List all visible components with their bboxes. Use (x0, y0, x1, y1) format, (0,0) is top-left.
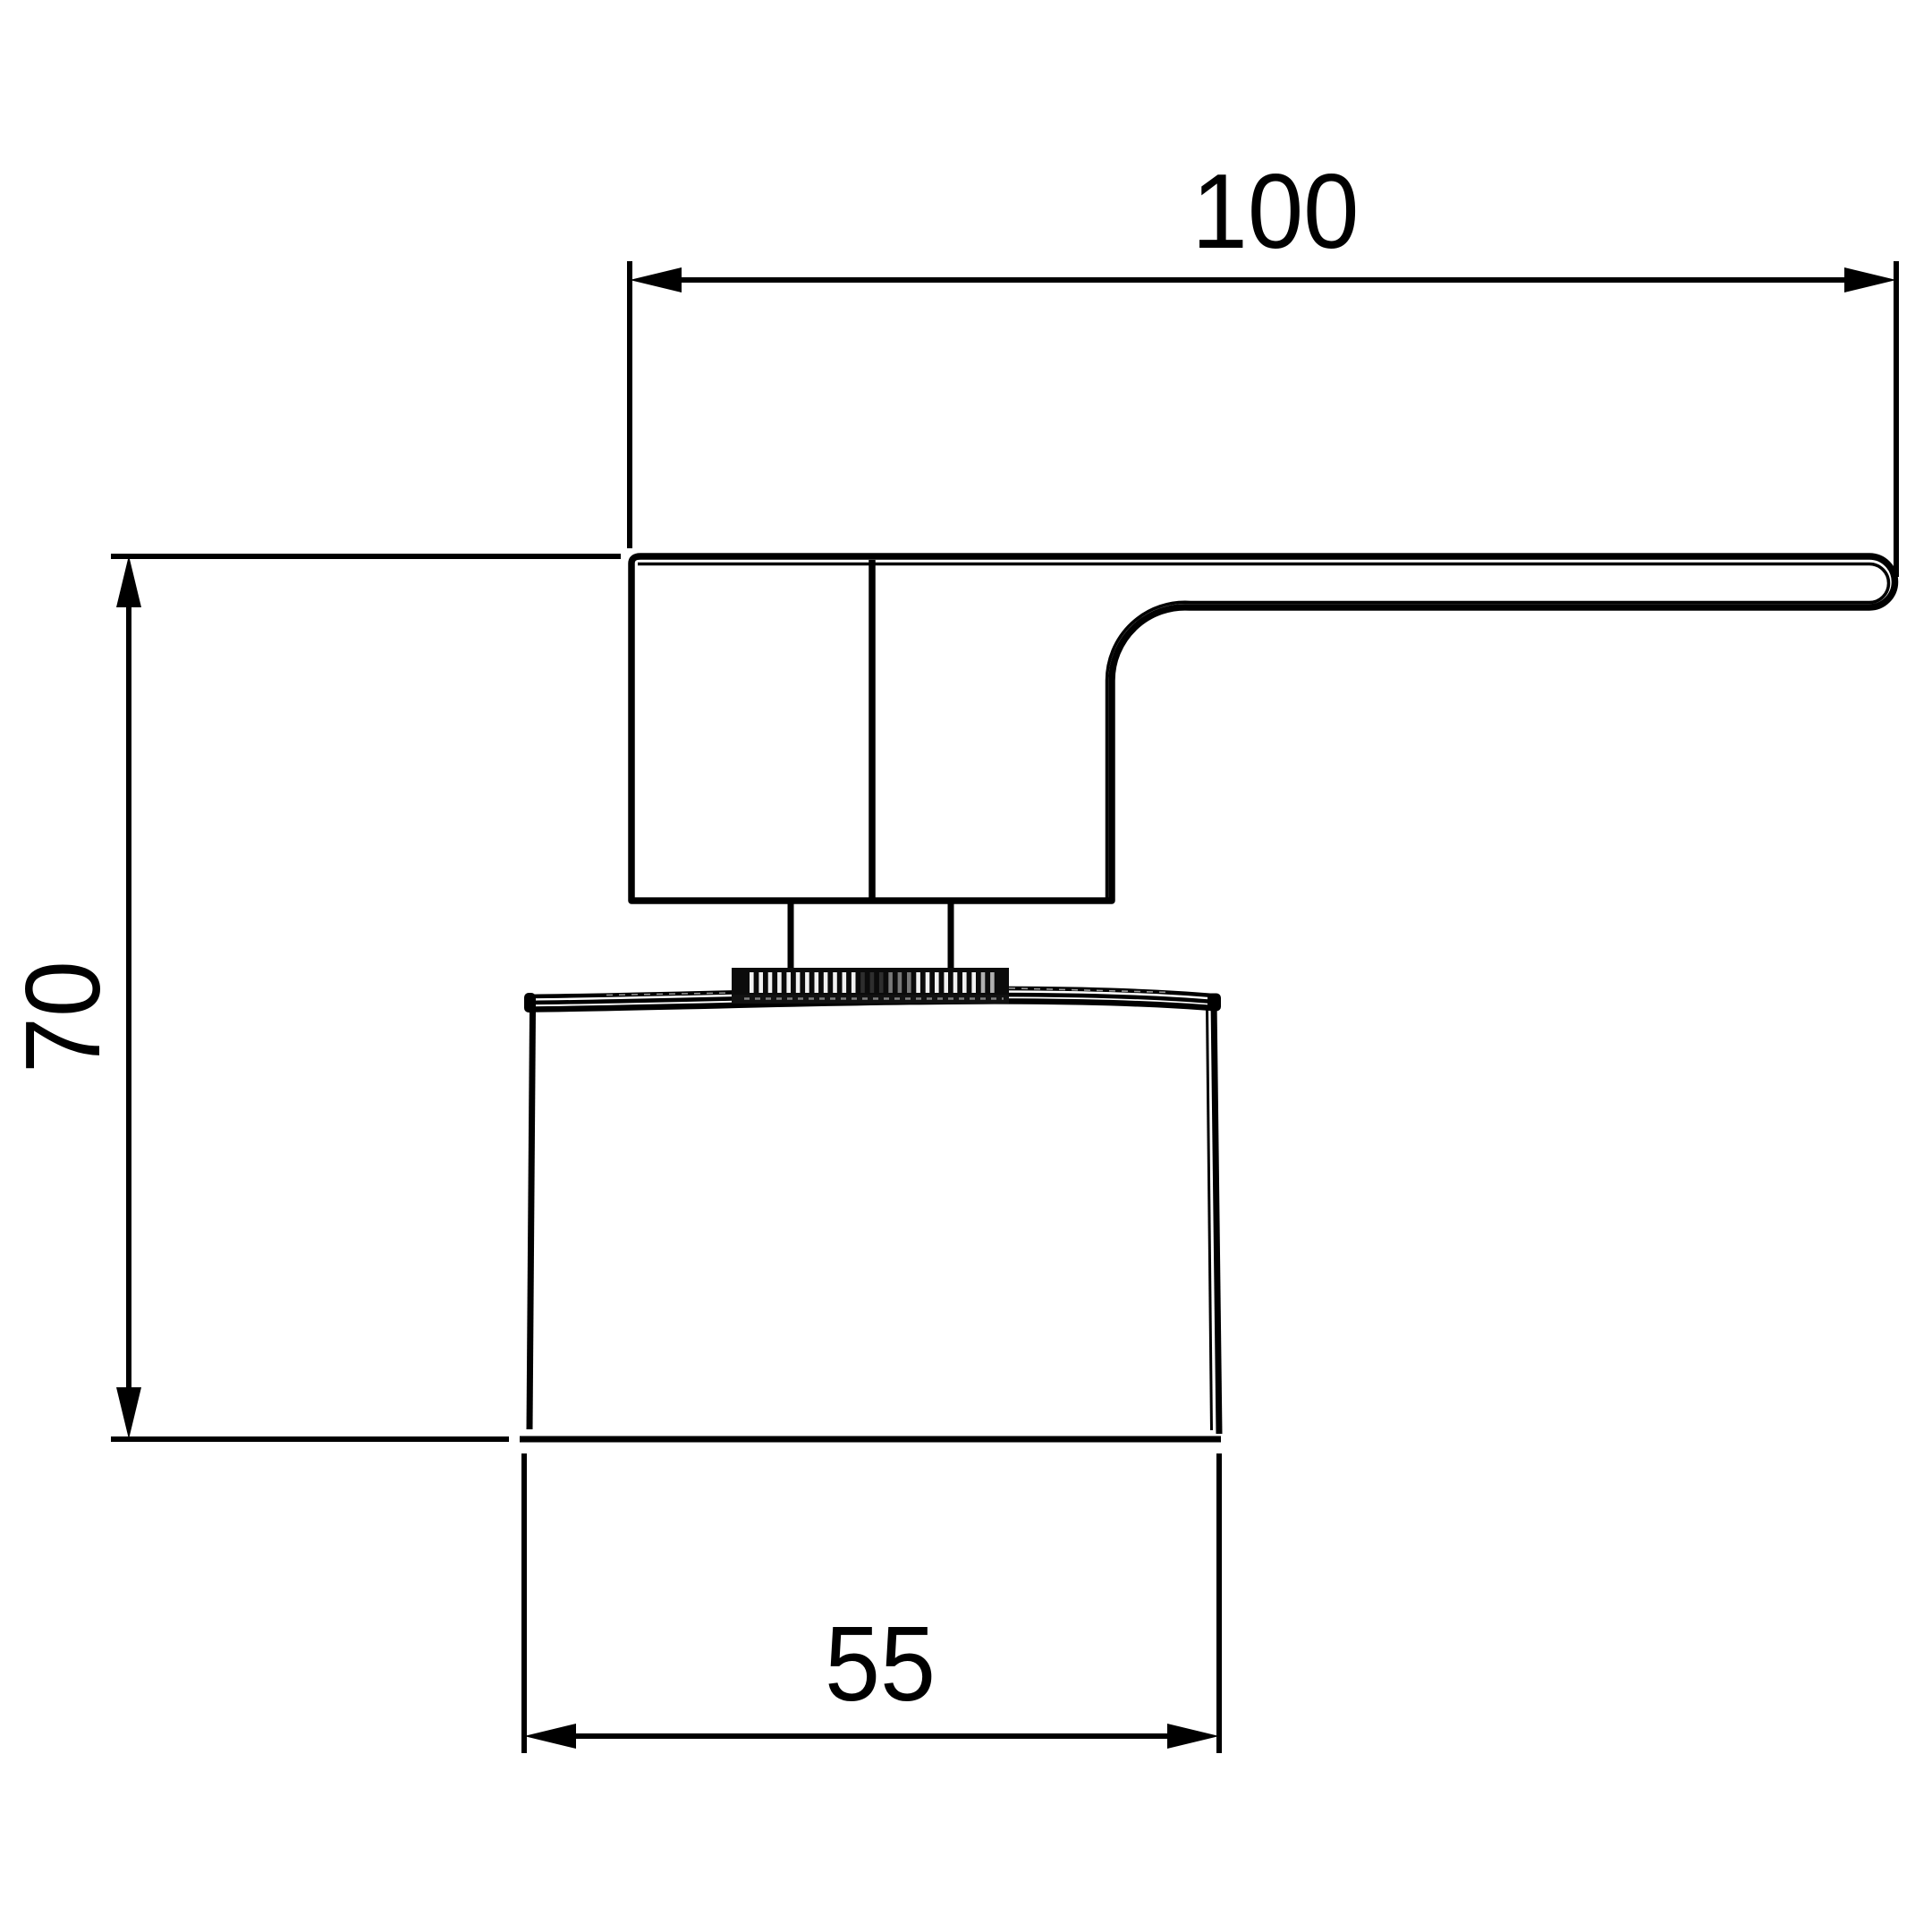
svg-text:70: 70 (4, 961, 123, 1073)
svg-text:55: 55 (825, 1605, 936, 1724)
svg-text:100: 100 (1192, 152, 1360, 271)
